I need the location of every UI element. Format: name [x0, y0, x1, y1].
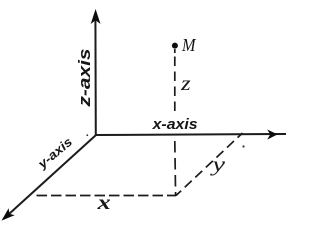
svg-text:x: x	[96, 192, 110, 214]
svg-text:x-axis: x-axis	[152, 117, 198, 133]
svg-text:z: z	[180, 73, 191, 95]
svg-text:y: y	[210, 154, 225, 176]
svg-text:z-axis: z-axis	[75, 49, 94, 108]
svg-text:M: M	[181, 35, 196, 55]
